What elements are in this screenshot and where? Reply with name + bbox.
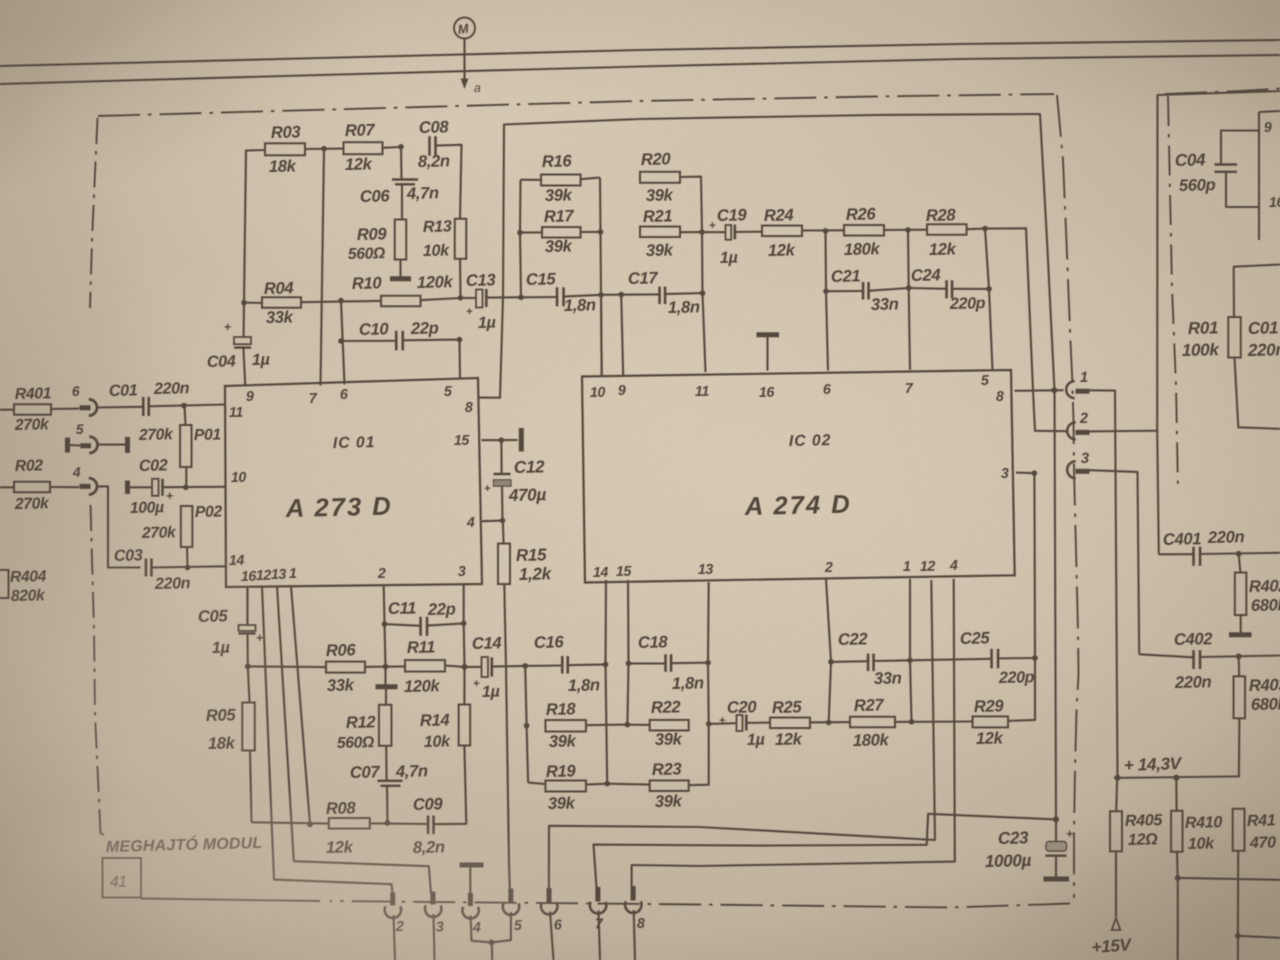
wire R402 top bbox=[1239, 554, 1241, 573]
junction C10 left bbox=[338, 338, 344, 344]
wire IC02 pin 14 bbox=[606, 580, 608, 784]
wire C14 left bbox=[465, 666, 482, 668]
junction R18 R22 pin15 bbox=[625, 722, 631, 728]
junction R18 left bbox=[524, 723, 530, 729]
capacitor C23 bbox=[985, 827, 1073, 871]
capacitor C24 bbox=[911, 265, 986, 313]
wire C401 row bbox=[1159, 553, 1193, 555]
resistor R02 bbox=[14, 457, 51, 513]
resistor R405 bbox=[1110, 811, 1164, 851]
wire C17 right bbox=[665, 293, 703, 294]
wire R02 to connector 4 bbox=[50, 486, 79, 488]
wire connector 4 to C03 bbox=[97, 486, 141, 567]
resistor R16 bbox=[541, 151, 581, 205]
wire C07 bottom bbox=[386, 786, 389, 823]
connector 2 bottom bbox=[385, 893, 404, 936]
terminal +15V bbox=[1091, 918, 1133, 957]
resistor R08 bbox=[326, 798, 370, 857]
wire C16 left bbox=[525, 664, 562, 667]
wire IC02 pin 11 bbox=[702, 232, 706, 372]
junction R06 R11 R12 bbox=[383, 664, 389, 670]
terminal bar pin15 bbox=[519, 428, 524, 452]
wire R25 right bbox=[810, 721, 850, 723]
IC02 pin 1 label bbox=[903, 559, 911, 575]
resistor R27 bbox=[850, 695, 895, 750]
wire connector 2 stub bbox=[394, 915, 396, 960]
wire R21 right bbox=[680, 231, 702, 233]
wire C14 right bbox=[492, 665, 525, 668]
junction C01 P01 bbox=[181, 403, 187, 409]
junction C17 pin11 bbox=[700, 290, 706, 296]
capacitor C11 bbox=[388, 598, 456, 635]
wire connector 5 left bbox=[68, 444, 81, 446]
IC02 pin 10 label bbox=[590, 385, 606, 401]
module2 pin 16 label bbox=[1269, 195, 1280, 211]
wire C402 row bbox=[1139, 654, 1193, 657]
wire node B vertical bbox=[520, 180, 521, 298]
resistor R411 bbox=[1233, 809, 1277, 852]
capacitor C08 bbox=[418, 117, 450, 171]
wire R06 to R11 bbox=[365, 665, 405, 668]
wire C16 right bbox=[568, 663, 606, 666]
wire R16 right bbox=[581, 178, 601, 180]
capacitor C401 bbox=[1163, 527, 1245, 566]
IC01 pin 3 label bbox=[458, 564, 466, 580]
junction R22 right bbox=[706, 721, 712, 727]
wire connector 6 to C01 bbox=[97, 406, 143, 409]
wire C25 left bbox=[910, 659, 992, 661]
IC02 pin 14 label bbox=[593, 565, 609, 581]
connector 4 bbox=[72, 465, 97, 495]
wire connector 1 riser bbox=[1090, 390, 1118, 778]
wire IC02 pin 10 bbox=[600, 295, 603, 376]
resistor R12 bbox=[337, 705, 392, 752]
wire C20 left bbox=[709, 722, 737, 725]
wire IC02 pin 13 bbox=[689, 582, 709, 785]
junction R26 R28 C24 bbox=[905, 227, 911, 233]
resistor R29 bbox=[973, 696, 1009, 748]
wire IC01 pin 13 to connector 3 bbox=[277, 586, 431, 894]
capacitor C12 bbox=[484, 457, 547, 505]
resistor R13 bbox=[423, 217, 467, 260]
capacitor C01 bbox=[109, 379, 190, 416]
connector 6 bottom bbox=[541, 888, 562, 933]
wire R10 to R13 bbox=[421, 298, 461, 300]
wire R401 to connector 6 bbox=[51, 408, 79, 410]
capacitor C21 bbox=[831, 266, 899, 314]
wire connector 3 stub bbox=[434, 914, 435, 960]
wire C03 to IC01 pin 14 bbox=[152, 566, 227, 567]
wire connector 8 stub bbox=[634, 910, 635, 960]
junction rail R405 bbox=[1115, 775, 1121, 781]
junction pin3 node bbox=[1032, 470, 1038, 476]
wire node x526 bbox=[525, 666, 528, 783]
junction R410 out bbox=[1175, 875, 1181, 881]
junction R04 pin6 bbox=[338, 298, 344, 304]
IC01 pin 14 label bbox=[229, 553, 245, 569]
junction link stub bbox=[489, 940, 495, 946]
resistor R404 bbox=[0, 568, 47, 605]
IC01 pin 1 label bbox=[289, 566, 297, 582]
junction C401 R402 bbox=[1236, 551, 1242, 557]
connector 5 bottom bbox=[503, 889, 523, 934]
wire C13 left bbox=[461, 297, 477, 299]
wire C21 left bbox=[826, 290, 863, 292]
node a label bbox=[474, 81, 481, 95]
wire IC01 pin 5 bbox=[458, 340, 461, 379]
capacitor C13 bbox=[466, 270, 497, 332]
wire R411 bottom bbox=[1237, 851, 1239, 936]
module2 frame left dash-dot bbox=[1168, 96, 1178, 490]
wire C22 right bbox=[874, 659, 910, 662]
wire R01 bottom bbox=[1235, 358, 1280, 429]
wire R19 left bbox=[528, 783, 545, 784]
resistor R19 bbox=[545, 761, 586, 813]
capacitor C06 bbox=[360, 180, 439, 206]
IC01 pin 15 label bbox=[454, 433, 471, 449]
junction C14 C16 node bbox=[522, 663, 528, 669]
wire C06 bottom bbox=[401, 185, 403, 220]
connector 1 bbox=[1066, 370, 1089, 398]
junction C16 pin14 bbox=[603, 662, 609, 668]
wire R24 right bbox=[802, 229, 844, 231]
wire C09 to R14 bbox=[434, 746, 467, 825]
wire R06 row bbox=[248, 665, 326, 668]
capacitor C20 bbox=[719, 697, 765, 749]
IC01 pin 9 label bbox=[246, 389, 254, 405]
border frame line lower bbox=[0, 55, 1280, 84]
wire C04 top bbox=[243, 303, 245, 337]
wire C19 left bbox=[702, 231, 726, 233]
IC02 pin 12 label bbox=[920, 559, 936, 575]
junction C25 node bbox=[1032, 655, 1038, 661]
capacitor C16 bbox=[534, 632, 600, 695]
wire IC01 pin 16 upper bbox=[246, 587, 248, 626]
junction pin3 C11 bbox=[461, 621, 467, 627]
connector 3 bottom bbox=[425, 892, 444, 936]
wire C402 right bbox=[1200, 656, 1280, 658]
wire R04 to R10 bbox=[301, 301, 381, 302]
wire C11 right bbox=[427, 623, 464, 625]
IC02 pin 3 label bbox=[1001, 466, 1009, 482]
wire connector 6 stub bbox=[550, 912, 554, 960]
junction supply connector1 bbox=[1051, 387, 1057, 393]
wire connector 4 5 link bbox=[471, 912, 511, 942]
connector 5 left bar bbox=[65, 438, 70, 453]
wire IC02 pin 3 stub bbox=[1016, 472, 1034, 475]
wire C19 right bbox=[735, 231, 762, 233]
junction C03 P02 bbox=[185, 565, 191, 571]
connector 4 bottom bbox=[462, 893, 481, 936]
wire C18 right bbox=[671, 662, 708, 665]
wire P02 bottom bbox=[186, 547, 189, 568]
wire R403 top bbox=[1238, 656, 1241, 676]
junction pin2 C11 bbox=[382, 621, 388, 627]
junction rail R410 bbox=[1173, 775, 1179, 781]
capacitor C07 bbox=[350, 761, 428, 786]
junction pin9 node bbox=[618, 292, 624, 298]
wire IC02 pin 9 bbox=[621, 295, 623, 376]
wire R04 left bbox=[244, 302, 262, 304]
wire R18 right bbox=[586, 724, 627, 727]
potentiometer P01 bbox=[138, 425, 221, 467]
IC02 pin 11 label bbox=[695, 384, 710, 400]
wire C05 to R06 row bbox=[246, 634, 248, 667]
IC02 pin 9 label bbox=[618, 383, 626, 399]
resistor R401 bbox=[14, 385, 51, 434]
junction C10 right bbox=[457, 337, 463, 343]
wire connector 7 stub bbox=[599, 911, 601, 960]
resistor R21 bbox=[640, 206, 680, 260]
junction R27 R29 pin1 bbox=[909, 719, 915, 725]
junction C22 pin1 C25 bbox=[907, 658, 913, 664]
wire IC01 pin 1 bbox=[291, 586, 310, 824]
wire R28 output to connector 2 bbox=[985, 228, 1067, 431]
IC01 pin 12 label bbox=[256, 568, 272, 584]
wire R405 top bbox=[1116, 778, 1117, 811]
IC02 pin 4 label bbox=[949, 558, 958, 574]
wire C23 bottom bbox=[1055, 856, 1057, 877]
ground C23 bbox=[1044, 877, 1070, 882]
IC01 pin 16 label bbox=[241, 569, 257, 585]
capacitor C19 bbox=[709, 205, 748, 267]
wire R411 out down bbox=[1237, 936, 1239, 960]
wire R23 left bbox=[607, 783, 650, 786]
wire R15 top bbox=[502, 521, 505, 544]
module frame corner stub bbox=[101, 834, 105, 835]
IC01 pin 8 label bbox=[465, 400, 473, 416]
junction R20 R21 C19 bbox=[699, 229, 705, 235]
connector 5 bbox=[76, 422, 98, 453]
IC01 pin 4 label bbox=[466, 515, 475, 531]
module frame top dash-dot bbox=[98, 94, 1054, 116]
wire M arrow down bbox=[461, 39, 469, 90]
wire R11 to pin3 node bbox=[445, 666, 465, 667]
wire C10 right bbox=[403, 339, 460, 342]
resistor R28 bbox=[926, 205, 967, 259]
module2 frame top dash-dot bbox=[1165, 89, 1280, 95]
wire C10 left bbox=[341, 340, 396, 342]
junction R19 R23 pin14 bbox=[604, 781, 610, 787]
connector 8 bottom bbox=[625, 886, 645, 932]
wire C20 right bbox=[746, 722, 770, 724]
terminal bar R12 bbox=[376, 684, 398, 689]
capacitor C04 module2 bbox=[1175, 131, 1259, 208]
potentiometer P02 bbox=[141, 503, 223, 547]
ground R402 bbox=[1229, 632, 1252, 637]
resistor R01 module2 bbox=[1182, 317, 1241, 360]
supply rail 14.3V bbox=[1114, 754, 1240, 778]
wire R16 left bbox=[521, 179, 542, 181]
wire input R401 bbox=[0, 409, 14, 411]
wire C24 right bbox=[952, 288, 989, 290]
wire node C vertical bbox=[600, 178, 602, 376]
wire pin16 lower bbox=[248, 666, 250, 702]
junction R411 out bbox=[1235, 933, 1241, 939]
wire C15 left bbox=[521, 296, 557, 298]
capacitor C02 bbox=[128, 456, 226, 517]
junction C13 C15 node bbox=[518, 295, 524, 301]
junction R28 output bbox=[982, 226, 988, 232]
resistor R05 bbox=[206, 703, 255, 753]
IC02 pin 7 label bbox=[905, 381, 914, 397]
wire C401 right bbox=[1200, 553, 1280, 554]
junction C21 pin6 bbox=[823, 288, 829, 294]
IC02 pin 5 label bbox=[981, 373, 990, 389]
wire R410 bottom bbox=[1176, 852, 1179, 878]
wire C11 left bbox=[385, 624, 421, 626]
resistor R410 bbox=[1171, 811, 1223, 853]
junction R11 R14 pin3 bbox=[462, 664, 468, 670]
wire IC02 pin 2 bbox=[826, 579, 831, 722]
resistor R402 bbox=[1235, 573, 1280, 616]
wire C22 left bbox=[831, 660, 868, 663]
wire IC02 pin 12 to connector 6 bbox=[549, 580, 935, 890]
connector 2 right bbox=[1067, 411, 1089, 440]
wire C17 left bbox=[601, 293, 660, 295]
module frame left dash-dot upper bbox=[90, 118, 98, 308]
wire R08 row left bbox=[252, 822, 329, 823]
module title MEGHAJTO MODUL bbox=[106, 833, 263, 856]
junction C18 pin13 bbox=[705, 660, 711, 666]
IC01 pin 10 label bbox=[231, 470, 247, 486]
junction C18 pin15 bbox=[626, 661, 632, 667]
capacitor C15 bbox=[526, 269, 596, 315]
resistor R24 bbox=[762, 205, 802, 260]
junction R24 R26 C21 bbox=[823, 228, 829, 234]
wire IC01 pin 4 stub bbox=[482, 520, 503, 523]
IC02 pin 6 label bbox=[823, 382, 831, 398]
wire connector 5 right bbox=[97, 444, 127, 446]
wire IC01 pin 3 bbox=[463, 584, 466, 667]
capacitor C22 bbox=[838, 629, 902, 688]
wire C04 to IC01 pin 9 bbox=[243, 348, 245, 387]
capacitor C14 bbox=[472, 633, 502, 701]
junction R17 right bbox=[598, 229, 604, 235]
resistor R23 bbox=[650, 759, 689, 811]
wire R14 top bbox=[463, 667, 465, 705]
wire IC02 pin 8 bbox=[1015, 389, 1064, 392]
resistor R403 bbox=[1234, 675, 1280, 718]
capacitor C18 bbox=[638, 632, 704, 693]
IC02 pin 16 label bbox=[759, 385, 775, 401]
terminal bar above connector 4 bbox=[460, 865, 484, 894]
wire R05 to R08 bbox=[250, 751, 252, 823]
junction C24 right bbox=[986, 286, 992, 292]
junction C02 P01 P02 bbox=[183, 485, 189, 491]
wire R403 to rail bbox=[1238, 718, 1241, 776]
capacitor C05 bbox=[198, 606, 263, 657]
capacitor C01 module2 label bbox=[1247, 318, 1280, 360]
junction pin1 R08 bbox=[307, 821, 313, 827]
junction pin15 C12 bbox=[499, 437, 505, 443]
resistor R07 bbox=[344, 120, 383, 174]
wire IC01 pin 15 stub bbox=[482, 439, 518, 441]
junction C24 pin7 bbox=[906, 285, 912, 291]
module frame left dash-dot lower bbox=[91, 505, 101, 834]
wire IC01 pin 6 bbox=[341, 301, 345, 385]
junction R07 C08 C06 bbox=[398, 144, 404, 150]
wire R28 right bbox=[967, 228, 986, 231]
wire riser to C401 bbox=[1157, 431, 1159, 555]
IC01 pin 11 label bbox=[229, 405, 244, 421]
IC02 pin 13 label bbox=[698, 562, 714, 578]
wire C24 branch pin5 bbox=[985, 229, 993, 370]
resistor R03 bbox=[265, 122, 305, 176]
module frame right dash-dot bbox=[1057, 95, 1079, 898]
capacitor C17 bbox=[628, 268, 700, 317]
IC01 pin 13 label bbox=[271, 567, 287, 583]
wire connector 7 feed bbox=[594, 814, 1057, 888]
wire R12 stem bbox=[385, 689, 387, 705]
wire C15 right bbox=[564, 295, 601, 297]
terminal M circle bbox=[454, 18, 475, 39]
junction C12 R15 pin4 bbox=[500, 518, 506, 524]
wire IC02 pin 7 bbox=[908, 230, 910, 370]
wire C24 left bbox=[909, 287, 947, 290]
resistor R11 bbox=[404, 637, 445, 696]
IC02 pin 15 label bbox=[616, 564, 633, 580]
wire R410 out right bbox=[1178, 878, 1280, 880]
module2 box edge bbox=[1259, 111, 1280, 240]
wire R26 right bbox=[884, 229, 927, 231]
wire IC01 pin 16 bbox=[246, 586, 248, 625]
wire R402 bottom bbox=[1240, 615, 1242, 633]
junction R17 left bbox=[517, 230, 523, 236]
wire R15 bottom to connector 5 bbox=[504, 584, 510, 890]
IC02 pin 2 label bbox=[824, 560, 833, 576]
capacitor C04 bbox=[207, 320, 270, 371]
IC01 pin 2 label bbox=[377, 566, 386, 582]
wire R410 out down bbox=[1177, 878, 1179, 960]
wire R07 to C08 bbox=[383, 146, 402, 149]
wire P01 top bbox=[185, 406, 186, 425]
IC01 pin 5 label bbox=[444, 384, 453, 400]
wire IC02 pin 6 bbox=[826, 231, 829, 371]
capacitor C03 bbox=[114, 546, 191, 593]
junction supply C23 bbox=[1053, 816, 1059, 822]
resistor R17 bbox=[542, 206, 581, 256]
junction pin16 R06 bbox=[245, 664, 251, 670]
wire R27 to R29 bbox=[895, 720, 973, 723]
wire IC01 pin 2 bbox=[384, 586, 386, 667]
wire C08 right bbox=[436, 145, 462, 219]
IC02 pin 8 label bbox=[996, 389, 1004, 405]
resistor R04 bbox=[262, 278, 301, 327]
wire R12 to C07 bbox=[385, 746, 387, 780]
resistor R06 bbox=[326, 640, 365, 695]
resistor R09 bbox=[348, 220, 407, 263]
wire R01 top bbox=[1234, 265, 1280, 318]
wire C18 left bbox=[629, 662, 667, 664]
junction C07 R08 bbox=[385, 820, 391, 826]
capacitor C09 bbox=[413, 794, 445, 857]
capacitor C25 bbox=[960, 628, 1035, 687]
module frame bottom solid segment bbox=[141, 899, 320, 902]
wire R405 bottom bbox=[1115, 851, 1117, 917]
junction C22 pin2 bbox=[828, 659, 834, 665]
module id box 41 bbox=[103, 858, 142, 898]
IC01 pin 6 label bbox=[340, 387, 348, 403]
wire R22 left bbox=[627, 724, 649, 726]
IC IC02 outline bbox=[582, 370, 1015, 583]
wire R13 bottom bbox=[459, 259, 462, 298]
wire IC02 pin 4 to connector 8 bbox=[632, 579, 955, 888]
wire IC02 pin 1 bbox=[910, 579, 912, 722]
junction R04 C04 bbox=[241, 300, 247, 306]
wire link stub down bbox=[491, 942, 494, 960]
wire R411 out right bbox=[1238, 936, 1280, 938]
